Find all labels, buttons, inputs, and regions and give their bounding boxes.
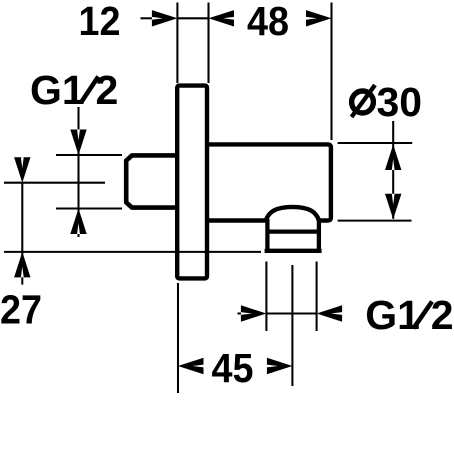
- arrow 48 right: [306, 10, 332, 26]
- arrow 45 right: [267, 358, 293, 374]
- outlet spout sides: [267, 219, 319, 251]
- extension line flange right (top): [207, 3, 209, 84]
- arrow G1/2b left: [241, 305, 267, 321]
- arrow 12 right / 48 left: [209, 10, 235, 26]
- outlet spout bottom face: [265, 249, 322, 253]
- extension line inlet top: [56, 154, 122, 156]
- svg-text:2: 2: [431, 292, 454, 338]
- svg-text:G1: G1: [30, 67, 85, 113]
- svg-text:27: 27: [0, 287, 42, 333]
- extension line body right (top): [330, 3, 332, 141]
- svg-text:G1: G1: [365, 292, 420, 338]
- inlet axis line: [4, 182, 105, 184]
- arrow G1/2 top (down): [70, 130, 86, 156]
- dimension line 27 vertical: [21, 183, 23, 285]
- arrow Ø30 bottom (down): [385, 194, 401, 220]
- main body with outlet dome: [207, 144, 331, 220]
- dimension line Ø30 vertical: [392, 121, 394, 219]
- extension line body top (right): [338, 142, 413, 144]
- svg-text:48: 48: [247, 0, 289, 44]
- svg-text:45: 45: [212, 345, 254, 391]
- svg-text:12: 12: [79, 0, 121, 44]
- outlet centre line: [291, 265, 293, 386]
- wall flange plate: [177, 86, 207, 279]
- dimension line G1/2 vertical: [77, 107, 79, 237]
- dimension line 12 tail: [141, 17, 155, 19]
- svg-text:30: 30: [377, 79, 423, 125]
- extension line outlet right: [316, 262, 318, 332]
- dimension line G1/2 bottom tail: [238, 312, 243, 314]
- dimension line 12-48 between flange lines: [177, 17, 208, 19]
- outlet bottom axis line: [4, 251, 261, 253]
- dimension text G1/2 top: [30, 67, 118, 113]
- extension line inlet bottom: [56, 207, 122, 209]
- arrow G1/2b right: [317, 305, 343, 321]
- extension line body bottom (right): [338, 220, 412, 222]
- arrow 12 left: [152, 10, 178, 26]
- dimension text Ø30: [352, 79, 423, 125]
- dimension line G1/2 bottom between: [266, 312, 316, 314]
- extension line flange left (top): [176, 3, 178, 84]
- dimension text G1/2 bottom: [365, 292, 453, 338]
- arrow 45 left: [178, 358, 204, 374]
- inlet connector G1/2 (left): [126, 155, 178, 207]
- extension line outlet left: [265, 262, 267, 332]
- arrow 27 bottom (up): [14, 252, 30, 278]
- arrow Ø30 top (up): [385, 145, 401, 171]
- outlet spout inner line: [267, 229, 319, 233]
- arrow 27 top (down): [14, 157, 30, 183]
- arrow G1/2 bottom (up): [70, 209, 86, 235]
- extension line wall face: [177, 283, 179, 393]
- svg-text:2: 2: [96, 67, 119, 113]
